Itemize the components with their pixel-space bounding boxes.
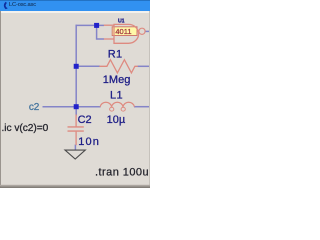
junction at gate inputs xyxy=(94,23,99,28)
svg-text:L1: L1 xyxy=(110,90,123,102)
junction at R1 left xyxy=(74,64,79,69)
NAND gate U1: value text 4011 xyxy=(115,27,131,36)
wire: gate output to right edge xyxy=(145,30,150,32)
svg-text:10µ: 10µ xyxy=(107,114,126,126)
wire: C2 bottom wire to ground xyxy=(74,145,76,150)
NAND gate U1: input leads xyxy=(104,25,114,39)
title bar xyxy=(0,0,150,11)
window border left xyxy=(0,11,1,188)
label R1 xyxy=(108,48,123,60)
svg-text:1Meg: 1Meg xyxy=(103,74,131,86)
svg-text:c2: c2 xyxy=(29,102,40,113)
wire: branch down to gate second input xyxy=(97,25,104,39)
window border bottom xyxy=(0,185,150,188)
NAND gate U1: value box 4011 xyxy=(112,27,137,36)
wire: C2 top lead wire xyxy=(75,107,77,116)
window border right xyxy=(149,11,150,188)
wire: bottom horizontal right segment xyxy=(134,106,150,108)
svg-text:.ic v(c2)=0: .ic v(c2)=0 xyxy=(2,123,49,134)
svg-text:C2: C2 xyxy=(78,114,92,126)
capacitor C2 xyxy=(68,115,84,146)
value 1Meg xyxy=(103,74,131,86)
svg-text:R1: R1 xyxy=(108,48,123,60)
label U1 xyxy=(118,19,125,25)
resistor R1 xyxy=(99,60,137,73)
inductor L1 xyxy=(100,102,134,111)
window icon xyxy=(0,0,12,11)
wire: top horizontal from left vertical to gate input xyxy=(76,24,105,26)
ground xyxy=(65,150,85,159)
wire: left vertical rail xyxy=(75,25,77,107)
wire: R1 row left xyxy=(76,65,100,67)
wire: bottom horizontal left segment (node c2) xyxy=(43,106,101,108)
net label c2 xyxy=(29,102,40,113)
svg-text:.tran 100u: .tran 100u xyxy=(95,167,149,179)
svg-text:10n: 10n xyxy=(78,136,100,148)
junction at node c2 / C2 top xyxy=(74,104,79,109)
NAND gate U1: output bubble xyxy=(139,28,145,34)
wire: R1 row right xyxy=(138,65,151,67)
spice directive .ic xyxy=(2,123,49,134)
value 10n xyxy=(78,136,100,148)
svg-text:4011: 4011 xyxy=(115,27,131,36)
svg-text:U1: U1 xyxy=(118,19,125,25)
spice directive .tran xyxy=(95,167,149,179)
NAND gate U1: body xyxy=(114,24,139,43)
value 10u xyxy=(107,114,126,126)
label C2 xyxy=(78,114,92,126)
label L1 xyxy=(110,90,123,102)
